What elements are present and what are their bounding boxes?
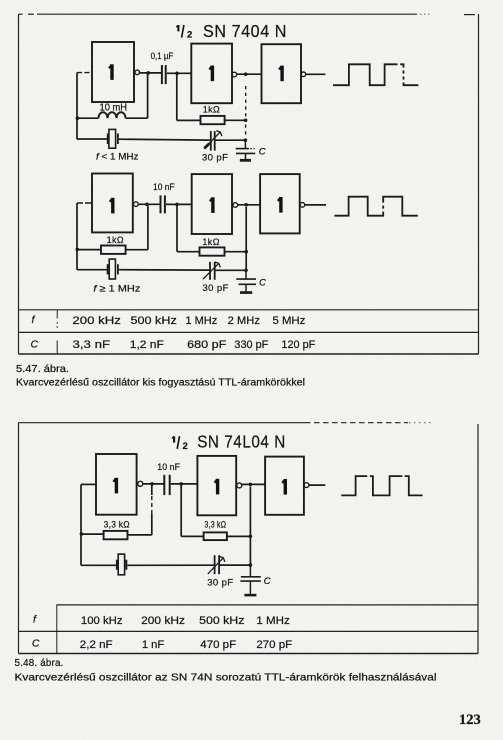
svg-text:f ≥ 1 MHz: f ≥ 1 MHz (93, 283, 140, 294)
svg-text:100 kHz: 100 kHz (81, 615, 123, 627)
svg-text:f < 1 MHz: f < 1 MHz (96, 151, 139, 162)
gate U2C (inverter 3) (260, 174, 300, 233)
svg-text:3,3 nF: 3,3 nF (73, 339, 111, 351)
gate U2B output bubble (233, 203, 238, 208)
wire U3C output stub (309, 484, 325, 486)
node junction U2B input (175, 203, 179, 207)
wire scan gaps waveform 2 (382, 203, 384, 212)
wire to R3 left (177, 251, 200, 253)
node junction trimmer2/C4 (244, 269, 248, 273)
svg-text:C: C (259, 146, 266, 157)
svg-text:1kΩ: 1kΩ (203, 105, 220, 115)
gate U3C output bubble (304, 483, 309, 488)
gate U2A (inverter 1) (92, 174, 133, 233)
node junction U1B output (244, 72, 248, 76)
wire node column U2B output to C4 (245, 207, 247, 270)
svg-text:330 pF: 330 pF (234, 339, 268, 351)
svg-text:C: C (259, 278, 266, 289)
wire U1B input feedback riser (176, 73, 178, 120)
wire riser R4 to U3A output (part dashed) (151, 514, 153, 535)
svg-text:1 MHz: 1 MHz (256, 615, 289, 627)
inductor L1 10 mH (99, 112, 126, 118)
wire crystal to trimmer 2 (119, 269, 210, 271)
trimmer capacitor CT1 30 pF (204, 131, 222, 151)
wire U3A input (81, 483, 96, 485)
node junction U2A output (145, 203, 149, 207)
svg-text:1,2 nF: 1,2 nF (130, 339, 164, 351)
wire C5 to U3B input (171, 483, 198, 485)
wire trimmer 3 to node (220, 564, 251, 566)
svg-text:10 nF: 10 nF (157, 462, 180, 473)
svg-text:C: C (31, 338, 39, 350)
gate U1B (inverter 2) (191, 44, 232, 104)
svg-text:3,3 kΩ: 3,3 kΩ (104, 519, 130, 529)
crystal Y3 (117, 554, 127, 575)
svg-text:2,2 nF: 2,2 nF (80, 639, 113, 651)
node junction U3B input (179, 482, 183, 486)
wire C3 to U2B input (166, 203, 192, 205)
wire dashed node link U1B output to R1 (245, 86, 247, 119)
svg-text:680 pF: 680 pF (187, 339, 227, 351)
wire U1C output stub (306, 73, 326, 75)
capacitor C5 10 nF (164, 475, 169, 495)
wire U2A output to C3 (138, 203, 159, 205)
table row C values (31, 338, 316, 350)
ground GND2 (240, 291, 252, 294)
table row C values 2 (32, 637, 293, 651)
capacitor C6 C (240, 565, 260, 594)
wire dashed node link R1 to C node (245, 125, 247, 139)
svg-text:500 kHz: 500 kHz (131, 315, 177, 327)
node junction trimmer3/C6 (249, 563, 253, 567)
wire U2A input (77, 202, 92, 204)
wire R4 to riser (128, 534, 152, 536)
crystal Y2 f&gt;=1MHz (108, 259, 118, 279)
table fig 5.48 (19, 605, 479, 654)
svg-text:30 pF: 30 pF (203, 283, 229, 294)
wire rail to R2 (77, 249, 101, 251)
capacitor C3 10 nF (161, 195, 165, 213)
svg-text:C: C (264, 576, 271, 587)
wire trimmer 2 to node (216, 269, 247, 271)
svg-text:10 nF: 10 nF (153, 182, 175, 193)
svg-text:C: C (32, 637, 40, 649)
wire U3B input feedback riser (180, 484, 182, 537)
node junction R3 right (244, 250, 248, 254)
wire U3B output to U3C (242, 483, 265, 485)
wire R1 right to node (225, 119, 246, 121)
svg-text:120 pF: 120 pF (281, 339, 315, 351)
figure 5.48 border frame (19, 423, 479, 654)
svg-text:2 MHz: 2 MHz (228, 315, 260, 327)
gate U2B (inverter 2) (192, 174, 232, 234)
node junction U3A output (150, 482, 154, 486)
svg-text:Kvarcvezérlésű oszcillátor kis: Kvarcvezérlésű oszcillátor kis fogyasztá… (16, 378, 305, 389)
svg-text:2: 2 (187, 30, 192, 41)
waveform output square wave 3 (341, 476, 422, 495)
svg-text:1 MHz: 1 MHz (185, 315, 217, 327)
capacitor C1 0,1 uF (162, 65, 166, 84)
wire crystal row 2 left (77, 269, 107, 271)
svg-text:Kvarcvezérlésű oszcillátor az: Kvarcvezérlésű oszcillátor az SN 74N sor… (15, 673, 437, 684)
wire node column U3B output to C6 (249, 487, 251, 566)
node junction rail/R4 (80, 532, 84, 536)
wire U2B input feedback riser (176, 204, 178, 251)
gate U3A (inverter 1) (96, 454, 137, 515)
wire U2C output stub (305, 204, 326, 206)
resistor R2 1k (U2A feedback) (101, 246, 126, 254)
gate U1C (inverter 3) (262, 44, 302, 103)
svg-text:270 pF: 270 pF (256, 639, 292, 651)
table row f values 2 (33, 614, 290, 627)
svg-text:3,3 kΩ: 3,3 kΩ (204, 519, 226, 529)
svg-text:0,1 µF: 0,1 µF (151, 51, 174, 62)
svg-text:10 mH: 10 mH (100, 102, 128, 113)
wire crystal to trimmer 3 (127, 564, 214, 566)
title 1/2 SN 7404 N (176, 21, 287, 41)
gate U2C output bubble (300, 203, 305, 208)
table row f values (32, 314, 306, 327)
ground GND3 (244, 594, 256, 597)
resistor R4 3,3k (U3A feedback) (104, 531, 128, 539)
trimmer capacitor CT3 30 pF (208, 555, 225, 574)
wire to inductor (77, 117, 99, 119)
wire U1A output to C1 (140, 72, 162, 74)
svg-text:2: 2 (183, 441, 188, 452)
wire R5 right to node (227, 535, 251, 537)
wire U2B output to U2C (238, 204, 261, 206)
wire crystal row left (77, 138, 107, 140)
svg-text:SN 74L04 N: SN 74L04 N (197, 432, 286, 452)
wire inductor to riser (126, 117, 148, 119)
gate U2A output bubble (134, 202, 139, 207)
table fig 5.47 (19, 310, 479, 354)
wire left vertical rail 2 (76, 203, 78, 270)
node junction trimmer/C (244, 138, 248, 142)
title 1/2 SN 74L04 N (172, 432, 286, 452)
wire scan gaps waveform 3 (367, 475, 404, 478)
node junction U3B output (249, 483, 253, 487)
wire R2 to riser (126, 249, 148, 251)
svg-text:200 kHz: 200 kHz (72, 315, 121, 327)
svg-text:1kΩ: 1kΩ (107, 235, 124, 245)
gate U3A output bubble (138, 481, 143, 486)
svg-text:470 pF: 470 pF (200, 639, 236, 651)
wire riser R2 to U2A output (147, 204, 149, 249)
svg-text:500 kHz: 500 kHz (199, 615, 244, 627)
resistor R1 1k (201, 116, 225, 124)
waveform output square wave 2 (334, 197, 417, 216)
node junction rail/R2 (76, 248, 80, 252)
resistor R5 3,3k (U3B feedback) (204, 532, 227, 540)
wire to R5 left (181, 535, 203, 537)
node junction R1 right (244, 119, 248, 123)
wire crystal row 3 left (81, 564, 116, 566)
gate U3C (inverter 3) (265, 457, 304, 515)
wire crystal to trimmer (119, 138, 210, 141)
waveform output square wave 1 (333, 64, 418, 85)
node junction at inductor tap (76, 116, 80, 120)
wire C1 to U1B input (167, 72, 192, 74)
svg-text:1 nF: 1 nF (142, 639, 165, 651)
wire scan gaps waveform 1 (398, 63, 405, 82)
svg-text:5 MHz: 5 MHz (273, 315, 306, 327)
svg-text:SN 7404 N: SN 7404 N (203, 21, 287, 41)
svg-text:5.48. ábra.: 5.48. ábra. (15, 658, 64, 669)
capacitor C4 C (236, 270, 256, 291)
node junction U1B input (175, 72, 179, 76)
resistor R3 1k (U2B feedback) (200, 247, 225, 255)
wire to R1 left (177, 119, 201, 121)
gate U3B output bubble (237, 483, 242, 488)
wire left vertical input rail (76, 73, 78, 140)
svg-text:123: 123 (459, 712, 481, 728)
gate U3B (inverter 2) (197, 456, 236, 515)
wire U1B output to U1C input (237, 73, 262, 75)
wire trimmer to node (216, 139, 246, 141)
ground GND1 (240, 159, 251, 162)
wire R3 right to node (225, 251, 247, 253)
node junction U1A output (147, 71, 151, 75)
wire U1A input (dashed in scan) (77, 72, 92, 74)
gate U1C output bubble (301, 72, 306, 77)
node junction R5 right (249, 535, 253, 539)
figure 5.47 border frame (19, 14, 479, 354)
wire left vertical rail 3 (80, 484, 82, 565)
capacitor C2 C (236, 140, 256, 159)
gate U1A (inverter 1) (92, 42, 134, 102)
svg-text:200 kHz: 200 kHz (141, 615, 185, 627)
svg-text:1kΩ: 1kΩ (202, 237, 219, 247)
crystal Y1 f&lt;1MHz (108, 129, 118, 148)
node junction U2B output (244, 203, 248, 207)
wire U3A output to C5 (143, 483, 164, 485)
svg-text:30 pF: 30 pF (202, 152, 228, 163)
gate U1A output bubble (135, 70, 140, 75)
svg-text:30 pF: 30 pF (207, 578, 233, 589)
trimmer capacitor CT2 30 pF (203, 262, 221, 280)
wire rail to R4 (81, 533, 104, 535)
gate U1B output bubble (232, 72, 237, 77)
svg-text:5.47. ábra.: 5.47. ábra. (16, 364, 69, 375)
wire riser to U1A output node (147, 73, 149, 118)
